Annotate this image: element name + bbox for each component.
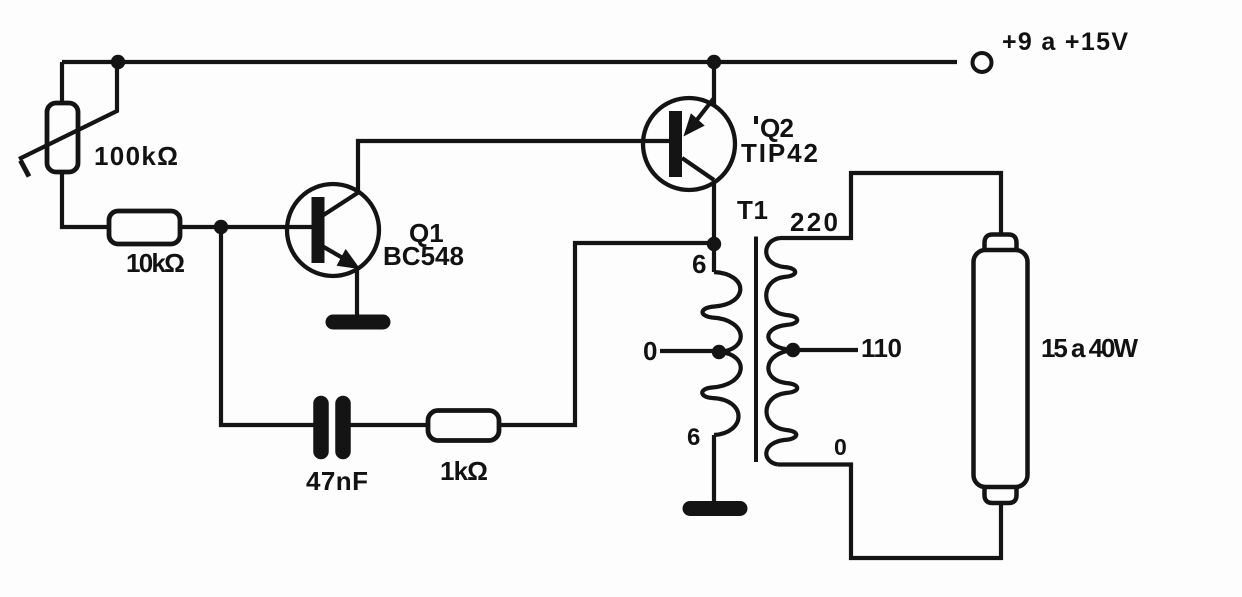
- wire cap to 1k: [350, 423, 429, 427]
- transformer T1 secondary winding: [766, 238, 797, 465]
- wire Q2 collector down to transformer: [712, 180, 716, 272]
- svg-text:110: 110: [861, 333, 902, 363]
- wire Q1 emitter to ground: [355, 269, 359, 316]
- wire 0 tap secondary to lamp: [778, 465, 1001, 559]
- resistor R2 1k body: [428, 411, 499, 441]
- node junction dot above Q2: [707, 55, 721, 69]
- capacitor C1 plate right: [335, 404, 351, 452]
- transistor Q1 emitter line: [322, 246, 348, 261]
- svg-text:15 a 40W: 15 a 40W: [1041, 333, 1138, 363]
- potentiometer wiper arm: [19, 62, 117, 159]
- potentiometer wiper end bar: [21, 161, 30, 177]
- ground G1 bar: [333, 315, 383, 330]
- node junction dot collector net: [707, 237, 721, 251]
- svg-text:T1: T1: [737, 195, 768, 225]
- potentiometer P1 body 100k: [47, 103, 78, 172]
- wire 10k to Q1 base: [180, 225, 313, 229]
- svg-text:6: 6: [687, 424, 700, 451]
- node secondary tap dot: [786, 343, 800, 357]
- svg-text:47nF: 47nF: [306, 466, 368, 496]
- wire 220 tap to lamp: [780, 173, 1001, 238]
- transistor Q2 emitter arrow: [686, 116, 703, 135]
- lamp top cap: [985, 235, 1017, 253]
- transistor Q1 circle: [287, 184, 379, 276]
- wire primary bottom to ground: [712, 435, 716, 502]
- node junction dot top-left: [111, 55, 125, 69]
- lamp body: [974, 250, 1028, 487]
- svg-text:100kΩ: 100kΩ: [94, 141, 178, 171]
- wire 110 tap: [793, 348, 858, 352]
- transistor Q2 emitter line: [689, 98, 714, 130]
- transistor Q2 circle: [643, 98, 735, 190]
- label Q2 tick: [754, 116, 758, 124]
- resistor R1 10k body: [109, 211, 180, 244]
- transistor Q1 base bar: [312, 197, 325, 263]
- capacitor C1 plate left: [313, 404, 329, 452]
- svg-text:BC548: BC548: [383, 241, 464, 271]
- transistor Q2 base bar: [669, 111, 682, 177]
- svg-text:6: 6: [692, 249, 706, 279]
- lamp bottom cap: [985, 485, 1017, 503]
- svg-text:0: 0: [643, 336, 657, 366]
- node junction dot base net: [214, 220, 228, 234]
- transistor Q1 emitter arrow: [339, 251, 358, 267]
- wire 1k up to Q2 collector node: [499, 243, 714, 425]
- wire bottom feedback loop left: [221, 227, 314, 425]
- svg-text:TIP42: TIP42: [741, 138, 818, 168]
- transformer T1 primary winding: [702, 272, 740, 435]
- svg-text:220: 220: [790, 207, 838, 237]
- wire Q1 collector up and across to Q2 base: [358, 141, 669, 191]
- svg-text:10kΩ: 10kΩ: [126, 248, 185, 278]
- ground G2 bar: [690, 501, 740, 516]
- node primary tap dot: [712, 345, 726, 359]
- wire top supply rail: [62, 60, 957, 64]
- wire 0 tap primary: [660, 349, 719, 353]
- transformer T1 core: [754, 237, 758, 463]
- svg-text:+9 a +15V: +9 a +15V: [1002, 28, 1128, 56]
- svg-text:1kΩ: 1kΩ: [440, 456, 488, 486]
- wire rail to pot top: [60, 62, 64, 103]
- transistor Q2 collector line: [682, 158, 714, 180]
- wire pot bottom to 10k: [62, 172, 109, 227]
- wire rail to Q2 emitter: [712, 62, 716, 105]
- transistor Q1 collector line: [322, 192, 359, 216]
- terminal +V circle: [973, 53, 992, 72]
- svg-text:0: 0: [834, 434, 847, 460]
